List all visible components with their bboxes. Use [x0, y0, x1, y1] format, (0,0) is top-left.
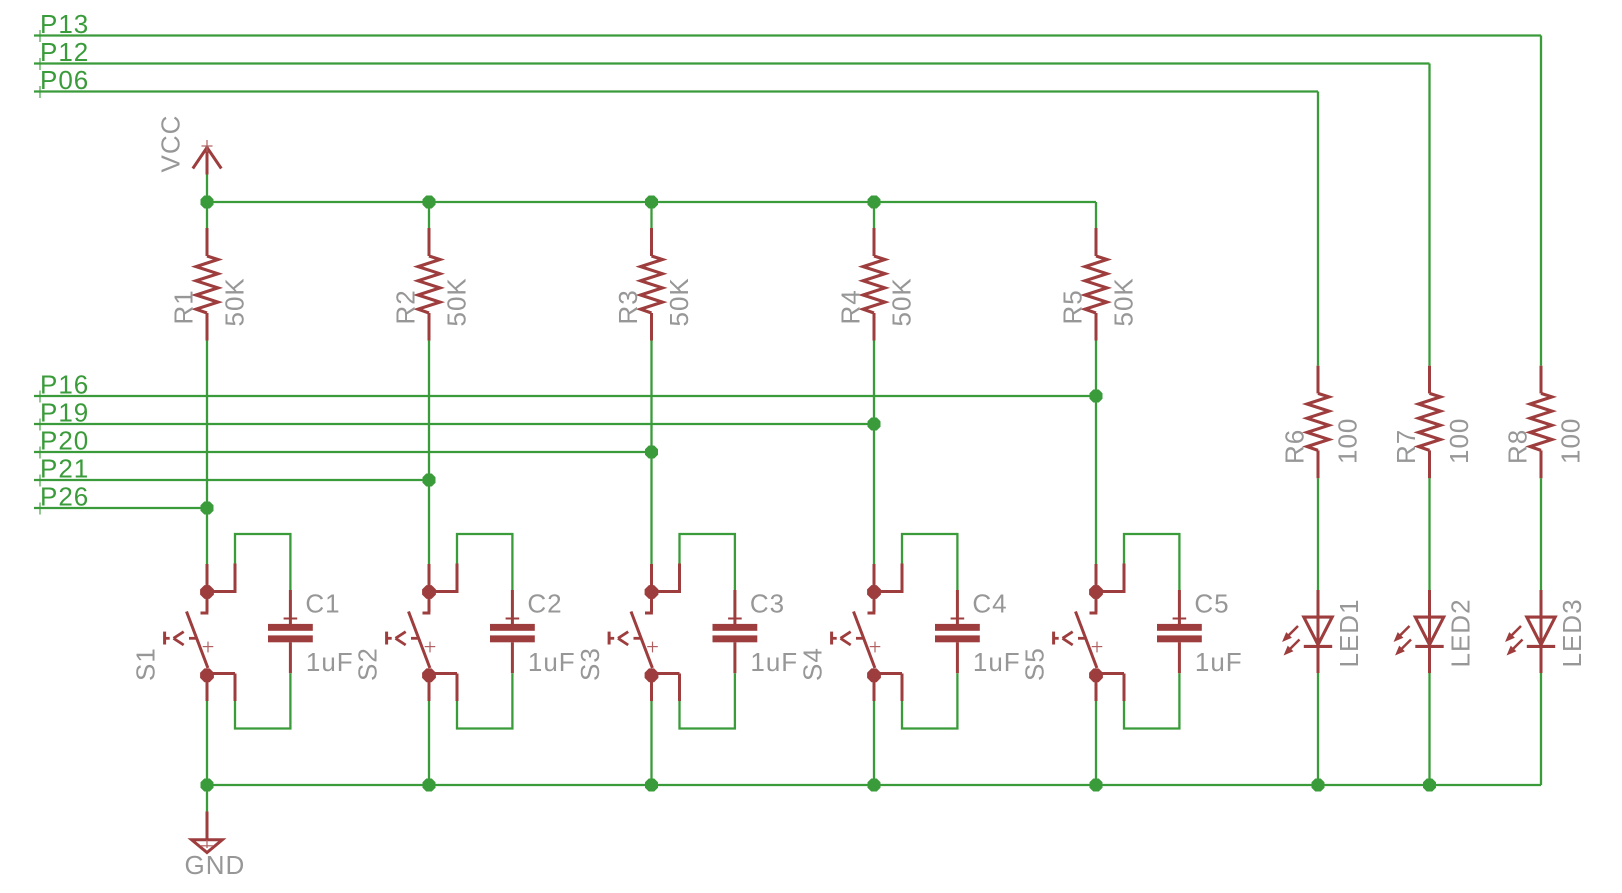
capacitor C4 polarity plus [951, 618, 965, 620]
wire capacitor branch left top green [680, 534, 735, 591]
wire capacitor branch left top green [457, 534, 512, 591]
wire capacitor branch green bottom [1124, 673, 1179, 728]
switch S2 pin stub top [428, 564, 431, 592]
switch S1 actuator arrow [165, 632, 197, 645]
switch S3 pin stub top [650, 564, 653, 592]
svg-text:VCC: VCC [156, 115, 186, 173]
wire net P16 horizontal [34, 395, 1096, 397]
svg-text:R8: R8 [1503, 429, 1533, 464]
wire LED3 to bottom bus [1540, 673, 1542, 785]
switch S2 pin stub bottom [428, 675, 431, 701]
wire S2 top to capacitor branch [429, 590, 457, 593]
LED3 diode symbol [1527, 590, 1555, 673]
capacitor C4 top lead [956, 590, 959, 624]
svg-text:GND: GND [185, 850, 246, 880]
junction bottom bus x=1096 [1090, 779, 1103, 792]
junction P19 on column [868, 418, 881, 431]
switch S1 bottom contact node [200, 668, 214, 682]
wire capacitor branch green bottom [457, 673, 512, 728]
switch S1 top contact node [200, 585, 214, 599]
ground GND symbol [192, 812, 223, 853]
switch S3 bottom contact node [645, 668, 659, 682]
switch S2 origin cross [425, 642, 436, 653]
node P13 stub tick [34, 30, 46, 42]
switch S5 pin stub top [1095, 564, 1098, 592]
svg-text:C1: C1 [305, 589, 340, 619]
svg-text:50K: 50K [220, 277, 250, 326]
wire R2 to switch column [428, 341, 430, 565]
wire capacitor branch left bottom red [1123, 674, 1126, 702]
wire capacitor branch left top red [234, 564, 237, 594]
capacitor C4 plates [935, 624, 980, 642]
capacitor C5 top lead [1178, 590, 1181, 624]
wire capacitor branch left top red [678, 564, 681, 594]
svg-text:50K: 50K [887, 277, 917, 326]
wire capacitor branch green bottom [902, 673, 957, 728]
capacitor C5 polarity plus [1173, 618, 1187, 620]
svg-text:1uF: 1uF [973, 647, 1021, 677]
node P16 stub tick [34, 391, 46, 403]
svg-text:S5: S5 [1020, 647, 1050, 681]
svg-text:1uF: 1uF [750, 647, 798, 677]
wire R8 to LED3 [1540, 478, 1542, 590]
switch S5 bottom contact node [1089, 668, 1103, 682]
svg-text:LED1: LED1 [1334, 598, 1364, 667]
switch S1 origin cross [203, 642, 214, 653]
LED2 emission arrows [1395, 626, 1412, 655]
capacitor C3 top lead [733, 590, 736, 624]
node P06 stub tick [34, 86, 46, 98]
svg-text:C2: C2 [527, 589, 562, 619]
junction P20 on column [645, 446, 658, 459]
resistor R1 50K [196, 228, 218, 341]
svg-text:C5: C5 [1194, 589, 1229, 619]
wire R4 to switch column [873, 341, 875, 565]
node P19 stub tick [34, 419, 46, 431]
power symbol VCC [193, 140, 222, 175]
wire capacitor branch left bottom red [901, 674, 904, 702]
junction top bus at R1 [201, 196, 214, 209]
switch S3 fixed contact [645, 592, 653, 613]
wire S2 to bottom bus [428, 701, 430, 785]
junction top bus at R3 [645, 196, 658, 209]
svg-text:R6: R6 [1280, 429, 1310, 464]
LED3 emission arrows [1506, 626, 1523, 655]
wire S3 to bottom bus [650, 701, 652, 785]
wire net P12 vertical to resistor [1428, 64, 1430, 366]
wire net P06 vertical to resistor [1317, 92, 1319, 366]
svg-text:100: 100 [1444, 418, 1474, 464]
switch S3 origin cross [647, 642, 658, 653]
svg-text:R5: R5 [1058, 289, 1088, 324]
node P21 stub tick [34, 475, 46, 487]
wire LED2 to bottom bus [1428, 673, 1430, 785]
switch S3 actuator arrow [609, 632, 641, 645]
wire top bus to R5 [1095, 202, 1097, 228]
switch S2 lever [409, 612, 430, 669]
wire R5 to switch column [1095, 341, 1097, 565]
wire net P20 horizontal [34, 451, 652, 453]
switch S3 lever [631, 612, 652, 669]
resistor R3 50K [641, 228, 663, 341]
svg-text:S3: S3 [575, 647, 605, 681]
junction P26 on column [201, 502, 214, 515]
capacitor C4 bottom lead [956, 642, 959, 673]
wire capacitor branch left bottom red [456, 674, 459, 702]
svg-text:50K: 50K [664, 277, 694, 326]
wire capacitor branch green bottom [235, 673, 290, 728]
wire S5 top to capacitor branch [1096, 590, 1124, 593]
wire S1 to bottom bus [206, 701, 208, 785]
switch S5 actuator arrow [1054, 632, 1086, 645]
wire R6 to LED1 [1317, 478, 1319, 590]
LED2 diode symbol [1415, 590, 1443, 673]
svg-text:R7: R7 [1391, 429, 1421, 464]
wire top bus to R3 [650, 202, 652, 228]
wire top bus to R1 [206, 202, 208, 228]
switch S4 pin stub top [873, 564, 876, 592]
wire net P13 vertical to resistor [1540, 36, 1542, 366]
wire GND bottom bus horizontal [207, 784, 1541, 786]
wire bus to GND symbol [206, 785, 208, 812]
wire net P12 horizontal [34, 62, 1430, 64]
svg-text:100: 100 [1333, 418, 1363, 464]
wire top bus to R4 [873, 202, 875, 228]
capacitor C3 polarity plus [728, 618, 742, 620]
wire S3 bottom to capacitor branch [652, 672, 680, 675]
resistor R2 50K [418, 228, 440, 341]
wire capacitor branch left top red [456, 564, 459, 594]
wire S3 top to capacitor branch [652, 590, 680, 593]
wire net P26 horizontal [34, 507, 207, 509]
switch S5 origin cross [1092, 642, 1103, 653]
wire S4 to bottom bus [873, 701, 875, 785]
capacitor C2 plates [490, 624, 535, 642]
switch S4 actuator arrow [832, 632, 864, 645]
junction bottom bus x=1429.5 [1423, 779, 1436, 792]
svg-text:S2: S2 [353, 647, 383, 681]
capacitor C1 polarity plus [284, 618, 298, 620]
switch S4 fixed contact [868, 592, 876, 613]
switch S2 top contact node [422, 585, 436, 599]
switch S1 pin stub top [206, 564, 209, 592]
junction bottom bus x=429 [423, 779, 436, 792]
node P26 stub tick [34, 503, 46, 515]
svg-text:50K: 50K [1109, 277, 1139, 326]
resistor R4 50K [863, 228, 885, 341]
svg-text:R3: R3 [613, 289, 643, 324]
wire R7 to LED2 [1428, 478, 1430, 590]
junction bottom bus x=651.5 [645, 779, 658, 792]
capacitor C3 plates [713, 624, 758, 642]
switch S1 fixed contact [201, 592, 209, 613]
switch S5 lever [1076, 612, 1097, 669]
wire net P06 horizontal [34, 90, 1318, 92]
switch S4 origin cross [870, 642, 881, 653]
wire capacitor branch left top red [1123, 564, 1126, 594]
junction bottom bus x=1318 [1312, 779, 1325, 792]
wire S4 top to capacitor branch [874, 590, 902, 593]
wire LED1 to bottom bus [1317, 673, 1319, 785]
node P20 stub tick [34, 447, 46, 459]
wire capacitor branch left top red [901, 564, 904, 594]
wire net P21 horizontal [34, 479, 429, 481]
wire VCC to top bus [206, 175, 208, 203]
resistor R5 50K [1085, 228, 1107, 341]
node P12 stub tick [34, 58, 46, 70]
capacitor C1 bottom lead [289, 642, 292, 673]
wire capacitor branch left bottom red [678, 674, 681, 702]
wire S5 bottom to capacitor branch [1096, 672, 1124, 675]
switch S4 bottom contact node [867, 668, 881, 682]
capacitor C2 bottom lead [511, 642, 514, 673]
resistor R6 100 [1307, 366, 1329, 479]
junction P16 on column [1090, 390, 1103, 403]
wire capacitor branch left top green [1124, 534, 1179, 591]
LED1 emission arrows [1283, 626, 1300, 655]
switch S3 pin stub bottom [650, 675, 653, 701]
wire S2 bottom to capacitor branch [429, 672, 457, 675]
svg-text:C3: C3 [750, 589, 785, 619]
wire capacitor branch green bottom [680, 673, 735, 728]
capacitor C1 top lead [289, 590, 292, 624]
wire R1 to switch column [206, 341, 208, 565]
junction P21 on column [423, 474, 436, 487]
resistor R8 100 [1530, 366, 1552, 479]
LED1 diode symbol [1304, 590, 1332, 673]
wire VCC top bus horizontal [207, 201, 1096, 203]
wire S5 to bottom bus [1095, 701, 1097, 785]
svg-text:R1: R1 [169, 289, 199, 324]
wire net P13 horizontal [34, 34, 1541, 36]
capacitor C2 polarity plus [506, 618, 520, 620]
switch S2 actuator arrow [387, 632, 419, 645]
wire S1 bottom to capacitor branch [207, 672, 235, 675]
svg-text:R4: R4 [836, 289, 866, 324]
capacitor C5 bottom lead [1178, 642, 1181, 673]
wire net P19 horizontal [34, 423, 874, 425]
switch S5 fixed contact [1090, 592, 1098, 613]
resistor R7 100 [1419, 366, 1441, 479]
wire top bus to R2 [428, 202, 430, 228]
switch S1 lever [187, 612, 208, 669]
svg-text:LED2: LED2 [1446, 598, 1476, 667]
svg-text:1uF: 1uF [306, 647, 354, 677]
switch S4 lever [854, 612, 875, 669]
wire capacitor branch left bottom red [234, 674, 237, 702]
switch S4 pin stub bottom [873, 675, 876, 701]
wire capacitor branch left top green [902, 534, 957, 591]
junction bottom bus x=207 [201, 779, 214, 792]
wire S4 bottom to capacitor branch [874, 672, 902, 675]
switch S4 top contact node [867, 585, 881, 599]
junction bottom bus x=874 [868, 779, 881, 792]
capacitor C2 top lead [511, 590, 514, 624]
svg-text:C4: C4 [972, 589, 1007, 619]
switch S3 top contact node [645, 585, 659, 599]
switch S2 fixed contact [423, 592, 431, 613]
capacitor C3 bottom lead [733, 642, 736, 673]
capacitor C1 plates [268, 624, 313, 642]
svg-text:R2: R2 [391, 289, 421, 324]
wire R3 to switch column [650, 341, 652, 565]
svg-text:S1: S1 [131, 647, 161, 681]
junction top bus at R2 [423, 196, 436, 209]
capacitor C5 plates [1157, 624, 1202, 642]
svg-text:1uF: 1uF [1195, 647, 1243, 677]
switch S5 top contact node [1089, 585, 1103, 599]
svg-text:LED3: LED3 [1557, 598, 1587, 667]
svg-text:100: 100 [1556, 418, 1586, 464]
switch S1 pin stub bottom [206, 675, 209, 701]
switch S2 bottom contact node [422, 668, 436, 682]
wire capacitor branch left top green [235, 534, 290, 591]
svg-text:S4: S4 [798, 647, 828, 681]
wire S1 top to capacitor branch [207, 590, 235, 593]
junction top bus at R4 [868, 196, 881, 209]
switch S5 pin stub bottom [1095, 675, 1098, 701]
svg-text:1uF: 1uF [528, 647, 576, 677]
svg-text:50K: 50K [442, 277, 472, 326]
